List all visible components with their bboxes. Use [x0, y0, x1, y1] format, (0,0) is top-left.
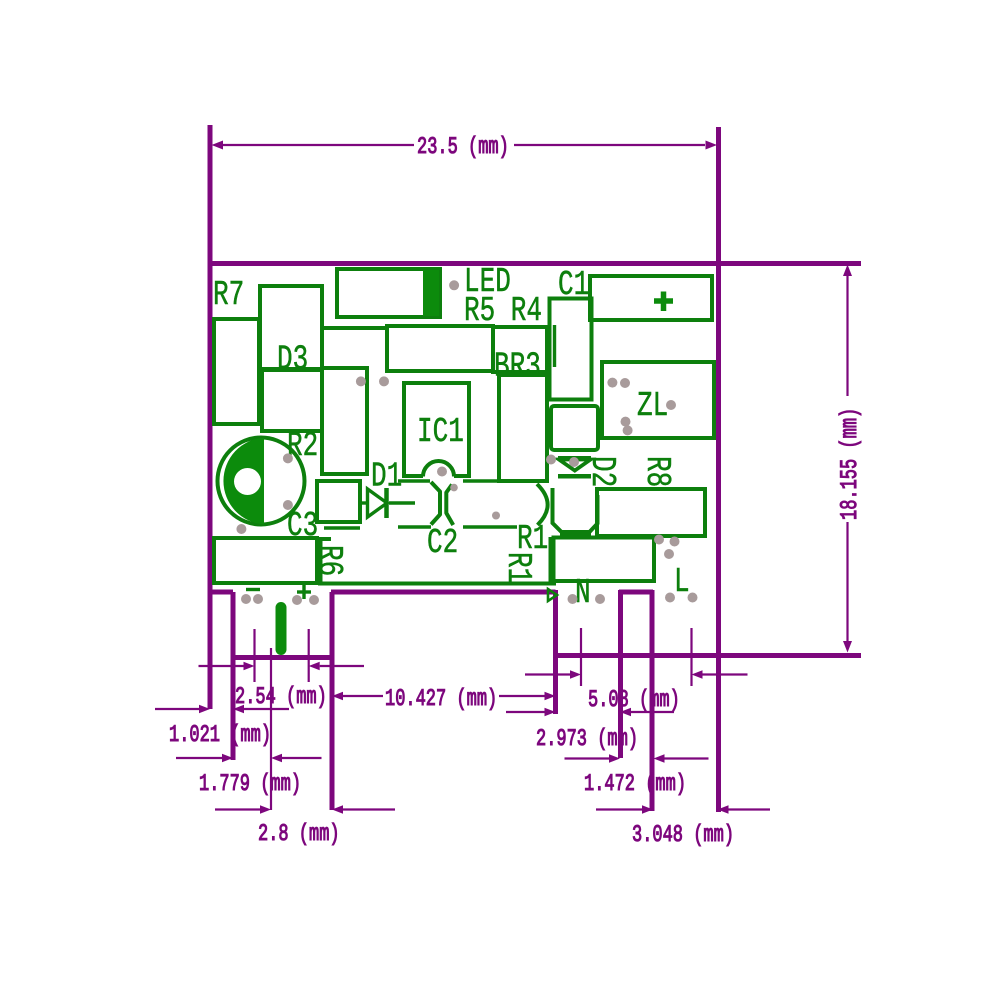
- big capacitor bottom center (open top): [321, 539, 332, 584]
- plus-marked component body: [590, 276, 712, 320]
- board right edge / extension line: [716, 127, 721, 812]
- svg-text:R6: R6: [309, 545, 349, 576]
- svg-text:D3: D3: [277, 339, 308, 379]
- LED body: [337, 269, 440, 317]
- plus symbol: [654, 298, 673, 304]
- dim 1.021mm: [155, 708, 199, 710]
- ZL component body: [602, 362, 714, 438]
- svg-text:2.973 (mm): 2.973 (mm): [536, 727, 638, 754]
- svg-text:5.08 (mm): 5.08 (mm): [588, 688, 680, 715]
- dim 2.54mm: [199, 665, 244, 667]
- svg-text:R8: R8: [637, 456, 677, 487]
- svg-text:2.54 (mm): 2.54 (mm): [235, 685, 327, 712]
- pin center extension x=581 (N): [580, 628, 582, 686]
- wire right of C2 top to BR3: [463, 479, 499, 482]
- board bottom edge segment 2: [331, 590, 556, 595]
- wire C3 to D1: [361, 501, 367, 504]
- dim 5.08mm: [525, 673, 570, 675]
- board top edge (extends right for 18.155 dim): [208, 261, 862, 266]
- svg-text:N: N: [575, 573, 591, 613]
- svg-text:L: L: [674, 562, 690, 602]
- pin center extension x=691.5 (L): [690, 628, 692, 686]
- capacitor C2 symbol (arcs): [431, 482, 440, 525]
- plus marking: [297, 590, 311, 593]
- component body bottom right: [554, 538, 655, 582]
- svg-text:1.779 (mm): 1.779 (mm): [199, 772, 301, 799]
- svg-text:R1: R1: [498, 552, 538, 583]
- dim 10.427mm: [343, 695, 383, 697]
- pin center extension x=254.5: [253, 629, 255, 682]
- bridge BR3 body: [499, 375, 547, 481]
- resistor R7 body: [214, 319, 259, 424]
- wire left of C2 top: [398, 479, 430, 482]
- wire from R5 to left: [321, 326, 387, 330]
- extension line x=233: [231, 592, 236, 760]
- pin center extension x=308.7: [308, 629, 310, 682]
- dim 1.779mm: [176, 757, 222, 759]
- board bottom edge segment 1: [210, 590, 233, 595]
- svg-text:R7: R7: [213, 275, 244, 315]
- board left edge / extension line: [208, 125, 213, 709]
- pin 1 marker triangle: [548, 589, 557, 601]
- svg-text:ZL: ZL: [637, 386, 668, 426]
- pin center extension x=271: [270, 648, 272, 810]
- extension line x=653: [650, 590, 655, 811]
- svg-text:2.8 (mm): 2.8 (mm): [258, 822, 340, 849]
- op-amp IC1 body with notch: [404, 383, 469, 476]
- capacitor C1 body: [550, 299, 592, 400]
- small component body below C1: [551, 406, 598, 450]
- svg-text:C2: C2: [427, 523, 458, 563]
- resistor R5 body: [387, 326, 493, 371]
- component body above D3: [260, 286, 322, 369]
- wire D1 to C2: [389, 501, 415, 504]
- electrolytic capacitor body (circle, half filled): [218, 438, 305, 525]
- diode D3 body: [262, 370, 322, 431]
- wire inside C1: [553, 325, 556, 367]
- pads: [241, 594, 251, 604]
- svg-text:IC1: IC1: [417, 412, 464, 452]
- svg-text:18.155 (mm): 18.155 (mm): [838, 408, 865, 520]
- svg-text:10.427 (mm): 10.427 (mm): [385, 687, 497, 714]
- dim 2.8mm: [215, 808, 260, 810]
- pin bottom bar left pin block: [233, 655, 332, 660]
- capacitor arc near R1: [537, 484, 548, 525]
- extension line x=620: [618, 590, 623, 758]
- dim 2.973mm: [506, 711, 545, 713]
- dim 3.048mm: [596, 808, 642, 810]
- diode D2 symbol: [559, 460, 591, 471]
- capacitor C3 body: [317, 481, 360, 522]
- diode D1 symbol: [368, 489, 388, 517]
- wire right of C2 bottom: [463, 525, 517, 528]
- bottom extension line for 18.155: [556, 653, 862, 658]
- resistor R8 body: [597, 489, 705, 536]
- svg-text:1.472 (mm): 1.472 (mm): [584, 772, 686, 799]
- dim 1.472mm: [565, 757, 610, 759]
- wire below C3: [324, 526, 360, 529]
- green pin bar below board: [276, 602, 287, 655]
- svg-text:23.5 (mm): 23.5 (mm): [417, 135, 509, 162]
- dim 23.5mm line: [223, 144, 414, 146]
- svg-text:3.048 (mm): 3.048 (mm): [632, 823, 734, 850]
- minus marking: [246, 588, 260, 591]
- board bottom edge segment 3: [619, 590, 653, 595]
- svg-text:BR3: BR3: [494, 346, 541, 386]
- wire left of C2 bottom: [398, 525, 431, 528]
- svg-text:1.021 (mm): 1.021 (mm): [169, 723, 271, 750]
- resistor R2 body: [322, 368, 367, 474]
- resistor R6 body: [214, 538, 317, 583]
- extension line x=332: [330, 592, 335, 810]
- dim 18.155mm line: [846, 276, 848, 396]
- resistor R4 body: [493, 327, 547, 372]
- extension line x=555.5: [553, 590, 558, 714]
- transistor Q1 outline (chamfered): [553, 488, 598, 533]
